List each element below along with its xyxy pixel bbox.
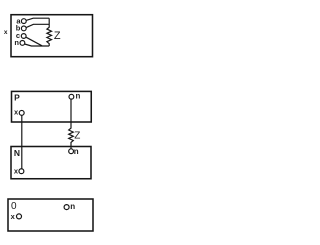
svg-text:N: N <box>14 148 20 158</box>
svg-text:0: 0 <box>11 201 17 212</box>
svg-text:n: n <box>70 202 75 211</box>
svg-text:P: P <box>14 92 20 102</box>
svg-text:x: x <box>4 29 8 36</box>
svg-text:n: n <box>74 147 79 156</box>
svg-text:Z: Z <box>74 131 80 142</box>
svg-text:n: n <box>76 92 81 101</box>
svg-text:Z: Z <box>54 30 61 42</box>
svg-text:n: n <box>14 38 19 47</box>
